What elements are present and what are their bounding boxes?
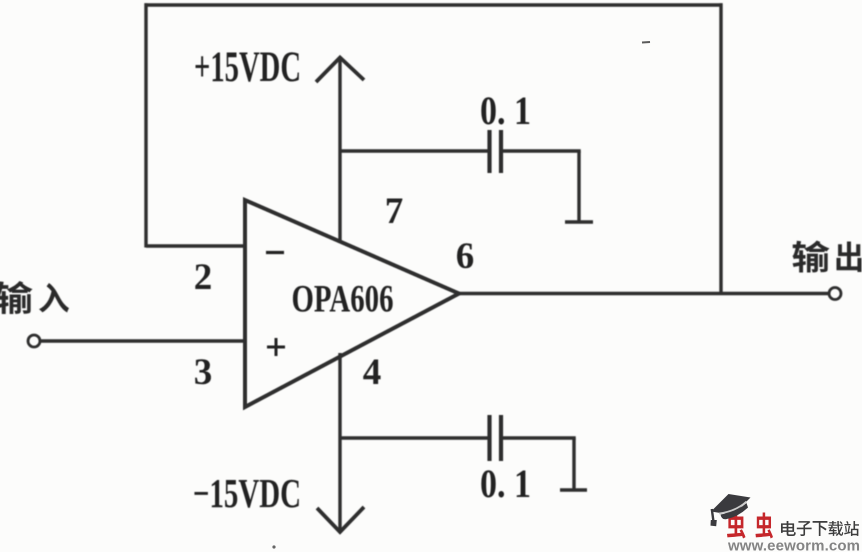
svg-text:+15VDC: +15VDC	[194, 44, 301, 91]
svg-text:www.eeworm.com: www.eeworm.com	[727, 538, 860, 552]
svg-text:6: 6	[456, 236, 475, 277]
svg-text:2: 2	[194, 257, 213, 298]
svg-text:3: 3	[194, 352, 213, 393]
svg-text:4: 4	[363, 352, 382, 393]
svg-text:0. 1: 0. 1	[480, 88, 531, 133]
svg-text:0. 1: 0. 1	[480, 461, 531, 506]
svg-text:7: 7	[385, 191, 404, 232]
svg-text:OPA606: OPA606	[292, 278, 394, 321]
svg-text:−15VDC: −15VDC	[193, 470, 301, 516]
